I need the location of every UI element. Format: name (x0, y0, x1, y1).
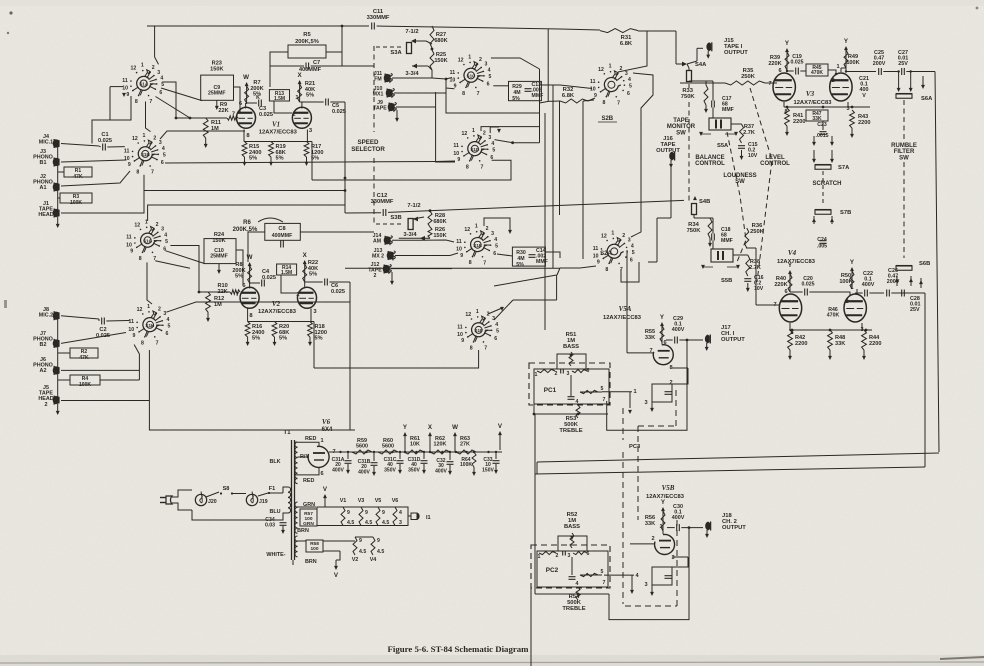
svg-text:OUTPUT: OUTPUT (721, 337, 745, 343)
svg-text:11: 11 (126, 235, 132, 241)
wire S1G contact 4 to V2 grid (170, 246, 199, 293)
svg-text:25MMF: 25MMF (210, 253, 228, 259)
svg-text:0.025: 0.025 (98, 138, 112, 144)
svg-text:7: 7 (156, 340, 159, 346)
svg-text:1.5M: 1.5M (281, 270, 292, 276)
svg-text:12: 12 (462, 131, 468, 137)
svg-text:R5: R5 (303, 32, 311, 38)
svg-text:V4: V4 (788, 249, 797, 257)
svg-text:J19: J19 (259, 499, 268, 505)
svg-text:5: 5 (601, 386, 604, 392)
svg-text:7: 7 (768, 81, 771, 87)
svg-text:9: 9 (359, 538, 362, 544)
plate resistor R39 220K with Y arrow (786, 49, 788, 70)
svg-text:9: 9 (126, 92, 129, 98)
svg-text:3: 3 (568, 553, 571, 559)
svg-text:33K: 33K (645, 521, 655, 527)
wires S1G mesh (148, 205, 345, 221)
svg-text:BRN: BRN (297, 528, 309, 534)
wire pin5 of PC1 (602, 391, 632, 393)
svg-text:5%: 5% (249, 156, 257, 162)
svg-text:11: 11 (593, 246, 599, 252)
svg-text:4.5: 4.5 (347, 520, 354, 526)
svg-text:4: 4 (576, 581, 579, 587)
svg-text:5: 5 (632, 250, 635, 256)
svg-text:B1: B1 (40, 160, 47, 166)
svg-text:FM: FM (374, 76, 382, 82)
jack J4 MIC.1 (53, 139, 60, 147)
capacitor C31C 40 350V (397, 460, 404, 462)
tube V5B (655, 534, 675, 554)
svg-text:11: 11 (453, 143, 459, 149)
V5A grid wire pin7 (627, 352, 654, 354)
wire pin1 to C6 (305, 281, 323, 283)
svg-text:100K: 100K (79, 382, 91, 388)
svg-text:S6B: S6B (919, 261, 930, 267)
arrows below S7B (813, 216, 815, 224)
svg-text:220K: 220K (768, 61, 781, 67)
wires S1A contacts 8 9 10 left (92, 96, 131, 144)
svg-text:10: 10 (593, 253, 599, 259)
PC1 inner parts (570, 375, 572, 396)
svg-text:4.5: 4.5 (377, 549, 384, 555)
svg-text:12AX7/ECC83: 12AX7/ECC83 (603, 315, 642, 321)
V3 pin2 dot (835, 73, 837, 75)
svg-text:2: 2 (651, 536, 654, 542)
svg-text:11: 11 (122, 78, 128, 84)
capacitor C19 0.025 (786, 70, 788, 72)
svg-text:8: 8 (135, 99, 138, 105)
jack J10 MX1 (386, 89, 393, 97)
svg-text:RED: RED (303, 478, 314, 484)
corner specks (9, 11, 12, 14)
svg-text:6: 6 (487, 82, 490, 88)
svg-text:1: 1 (476, 309, 479, 315)
wire S1A contact 5 to C9 box (161, 88, 202, 101)
V4 pin1 wire (856, 289, 858, 293)
svg-text:BASS: BASS (563, 344, 579, 350)
rotary switch S1H (143, 318, 159, 332)
svg-text:2: 2 (669, 380, 672, 386)
svg-text:33K: 33K (835, 341, 845, 347)
svg-text:S4B: S4B (699, 199, 710, 205)
wires around S1C (432, 78, 452, 80)
wire R24 box (236, 250, 243, 286)
tube V5A (653, 345, 673, 365)
svg-text:8: 8 (462, 91, 465, 97)
wire R4/J6 to S1H contact 8 (100, 379, 139, 381)
svg-text:6: 6 (166, 331, 169, 337)
svg-text:12: 12 (598, 67, 604, 73)
ground arrow below J1 (57, 217, 59, 227)
page-edge wire below PC2 (530, 588, 532, 666)
capacitor C34 0.03 (280, 522, 287, 524)
svg-text:400V: 400V (332, 467, 344, 473)
scratch filter arrows (813, 136, 815, 145)
svg-text:9: 9 (133, 333, 136, 339)
svg-text:12AX7/ECC83: 12AX7/ECC83 (646, 494, 685, 500)
capacitor C31B 20 400V (371, 462, 378, 464)
svg-text:2.7K: 2.7K (749, 265, 761, 271)
V5A cathode loop (672, 367, 688, 369)
grid wire V2 with R10 22K (199, 291, 230, 293)
svg-text:10: 10 (453, 151, 459, 157)
svg-text:1: 1 (320, 438, 323, 444)
svg-text:400V: 400V (672, 515, 685, 521)
PC3 dashed channel right (637, 426, 639, 520)
svg-text:C8: C8 (278, 226, 285, 232)
svg-text:4.5: 4.5 (359, 549, 366, 555)
svg-text:7: 7 (483, 260, 486, 266)
svg-text:7: 7 (617, 100, 620, 106)
svg-text:750K: 750K (687, 228, 702, 234)
svg-text:3-3/4: 3-3/4 (403, 232, 417, 238)
svg-text:S1G: S1G (143, 239, 153, 244)
wire J1 to S1B contact 7 (61, 191, 144, 214)
wire 3-3/4 contact S3A (412, 65, 428, 67)
tube V4 left triode (779, 294, 801, 322)
svg-text:2: 2 (555, 371, 558, 377)
heater bus 2 (298, 540, 307, 542)
svg-text:2: 2 (622, 233, 625, 239)
svg-text:2: 2 (158, 306, 161, 312)
svg-text:WHITE-: WHITE- (266, 552, 285, 558)
svg-text:CONTROL: CONTROL (760, 161, 790, 167)
rotary switch S2A (607, 244, 623, 258)
svg-text:220K: 220K (774, 282, 787, 288)
loudness dashed link (727, 132, 746, 262)
svg-text:7: 7 (151, 170, 154, 176)
svg-text:.005: .005 (817, 244, 827, 250)
svg-text:3: 3 (399, 520, 402, 526)
svg-text:9: 9 (457, 157, 460, 163)
box R29 4M 5% / C13 (509, 81, 542, 100)
svg-text:350V: 350V (384, 467, 396, 473)
svg-text:AM: AM (373, 238, 381, 244)
svg-text:6: 6 (630, 258, 633, 264)
svg-text:150K: 150K (212, 238, 225, 244)
svg-text:10: 10 (122, 85, 128, 91)
svg-text:MIC.1: MIC.1 (39, 140, 53, 146)
svg-text:3-3/4: 3-3/4 (405, 71, 419, 77)
svg-text:7: 7 (603, 397, 606, 403)
svg-text:10: 10 (126, 242, 132, 248)
resistor R60 5600 (378, 450, 398, 454)
svg-text:5: 5 (629, 83, 632, 89)
svg-text:C24: C24 (817, 237, 827, 243)
NFB wire from J17 to PC1 pin7 (607, 340, 687, 430)
jack J2 PHONO A1 (53, 183, 60, 191)
R51 ring wires (557, 354, 586, 369)
capacitor C21 0.1 400V (845, 68, 847, 72)
svg-text:4: 4 (494, 237, 497, 243)
svg-text:5%: 5% (315, 336, 323, 342)
svg-text:6: 6 (159, 90, 162, 96)
tube V3 right triode (830, 73, 852, 101)
svg-text:680K: 680K (433, 219, 446, 225)
svg-text:150K: 150K (434, 58, 447, 64)
svg-text:5%: 5% (306, 93, 314, 99)
svg-text:S3A: S3A (390, 50, 402, 56)
jack J3 PHONO B1 (53, 158, 60, 166)
svg-text:12: 12 (458, 57, 464, 63)
svg-text:SW: SW (899, 155, 909, 161)
white lead wire (292, 555, 298, 557)
plate resistor R22 40K with X arrow (304, 261, 306, 282)
module PC2 inner box (537, 551, 608, 587)
wire J2 to S1B contact 8 (61, 171, 130, 186)
svg-text:S1H: S1H (145, 323, 155, 328)
capacitor C12 330MMF (382, 209, 384, 216)
cathode resistor R19 68K 5% (269, 142, 274, 158)
V5B cathode loop (672, 556, 688, 558)
svg-text:2: 2 (292, 112, 295, 118)
wire S1C c5 to R29 (493, 85, 508, 87)
svg-text:8: 8 (141, 340, 144, 346)
wire S1B contact 5 long run (165, 161, 455, 163)
svg-text:3: 3 (644, 582, 647, 588)
tube V1 left triode (236, 107, 255, 128)
rotary switch S1C (464, 68, 480, 82)
svg-text:12: 12 (465, 312, 471, 318)
PC1 bottom wire (534, 413, 608, 415)
svg-text:0.025: 0.025 (262, 275, 276, 281)
resistor R64 100K (472, 452, 476, 467)
svg-text:V2: V2 (272, 300, 281, 308)
svg-text:OUTPUT: OUTPUT (722, 525, 746, 531)
svg-text:2.7K: 2.7K (743, 130, 755, 136)
left trunk down from PC1 (534, 414, 536, 594)
capacitor C25 0.47 200V (845, 70, 847, 72)
V3 pin1 wire (840, 68, 842, 72)
svg-text:V4: V4 (370, 557, 377, 563)
svg-text:4: 4 (399, 510, 402, 516)
wire S1A contact9 arrow (122, 93, 126, 97)
module PC1 dashed box (529, 363, 610, 405)
jack J17 CH 1 OUTPUT (705, 335, 710, 344)
capacitor C33 10 150V (493, 460, 500, 462)
capacitor C31D 40 350V (421, 460, 428, 462)
svg-text:0.025: 0.025 (332, 109, 346, 115)
capacitor C15 0.2 10V (738, 145, 745, 147)
svg-text:0.025: 0.025 (331, 289, 345, 295)
svg-text:6: 6 (493, 251, 496, 257)
svg-text:T1: T1 (283, 429, 291, 436)
svg-text:22K: 22K (218, 108, 228, 114)
B+ arrows W X Y V (404, 433, 406, 452)
tube V1 right triode (292, 107, 311, 128)
svg-text:BALANCE: BALANCE (695, 155, 724, 161)
svg-text:RED: RED (305, 436, 316, 442)
svg-text:1: 1 (141, 63, 144, 69)
svg-text:12: 12 (130, 66, 136, 72)
wire R26 to J13 junction (450, 253, 458, 256)
trunk wires middle (557, 268, 560, 275)
svg-text:HEAD: HEAD (38, 212, 53, 218)
top rail wire with C11 (147, 25, 369, 27)
cathode resistor R17 1200 5% (304, 142, 309, 158)
capacitor C26 0.47 200V (886, 290, 888, 297)
capacitor C6 0.025 (324, 279, 326, 286)
wire 7-1/2 contact S3A (412, 40, 426, 42)
plate resistor R50 100K with Y arrow (851, 268, 853, 289)
resistor R44 2200 (862, 330, 867, 350)
svg-text:S1C: S1C (467, 74, 477, 79)
svg-text:3: 3 (567, 371, 570, 377)
svg-text:V2: V2 (352, 557, 359, 563)
svg-text:4: 4 (495, 322, 498, 328)
svg-text:SPEED: SPEED (358, 139, 380, 146)
svg-text:10: 10 (457, 332, 463, 338)
svg-text:350V: 350V (408, 467, 420, 473)
svg-text:2: 2 (156, 222, 159, 228)
svg-text:9: 9 (377, 538, 380, 544)
svg-text:11: 11 (124, 148, 130, 154)
rotary switch S2B (604, 78, 620, 92)
svg-text:BASS: BASS (564, 524, 580, 530)
resistor R3 100K (60, 193, 92, 203)
svg-text:LOUDNESS: LOUDNESS (723, 173, 756, 179)
svg-text:4: 4 (491, 141, 494, 147)
trunk x345 ch1 output (344, 102, 346, 213)
svg-text:7: 7 (149, 99, 152, 105)
svg-text:11: 11 (456, 239, 462, 245)
V2 cathode bus (248, 321, 314, 323)
svg-text:250K: 250K (741, 74, 756, 80)
svg-text:4: 4 (160, 76, 163, 82)
svg-text:S1F: S1F (474, 328, 483, 333)
svg-text:S1B: S1B (141, 152, 151, 157)
switch S7A (815, 165, 831, 170)
svg-text:4: 4 (631, 244, 634, 250)
plate resistor R21 40K with X arrow (299, 81, 301, 102)
svg-text:8: 8 (603, 100, 606, 106)
wire 7-1/2 contact S3B (413, 217, 424, 219)
resistor R25 150K (430, 50, 434, 70)
svg-text:2: 2 (845, 299, 848, 305)
svg-text:150K: 150K (210, 66, 223, 72)
svg-text:Figure 5-6. ST-84 Schematic D: Figure 5-6. ST-84 Schematic Diagram (388, 644, 530, 654)
svg-text:12: 12 (601, 233, 607, 239)
resistor R61 10K (404, 450, 424, 454)
wire J7 to S1H contact 9 (61, 333, 126, 344)
plug wires (172, 490, 192, 497)
cathode resistor R16 2400 5% (245, 322, 250, 338)
svg-text:0.03: 0.03 (265, 522, 275, 528)
svg-text:8: 8 (139, 256, 142, 262)
svg-text:6X4: 6X4 (322, 427, 333, 433)
svg-text:10: 10 (456, 247, 462, 253)
svg-text:5%: 5% (516, 262, 524, 268)
svg-text:7-1/2: 7-1/2 (407, 203, 420, 209)
svg-text:12AX7/ECC83: 12AX7/ECC83 (258, 309, 297, 315)
svg-text:200K,5%: 200K,5% (295, 39, 319, 45)
svg-text:1: 1 (535, 372, 538, 378)
wire S1G contact 6 to y268 run (155, 261, 190, 269)
V arrow heater 2 (335, 560, 337, 566)
grid wire with R9 22K (176, 117, 227, 119)
svg-text:100K: 100K (460, 462, 472, 468)
feedback resistor R5 200K,5% box (288, 45, 326, 58)
jack J18 CH 2 OUTPUT (705, 522, 710, 531)
svg-text:RUMBLE: RUMBLE (891, 143, 917, 149)
wire S1A contact 4 to grid (162, 82, 176, 118)
PC1 top resistors (537, 369, 555, 372)
module PC2 dashed box (531, 545, 610, 588)
right second trunk (924, 293, 926, 467)
svg-text:S8: S8 (223, 486, 230, 492)
capacitor C24 .005 (820, 240, 827, 242)
svg-text:S6A: S6A (921, 96, 933, 102)
svg-text:K: K (256, 95, 260, 101)
svg-text:4: 4 (628, 77, 631, 83)
svg-text:2: 2 (556, 553, 559, 559)
resistor R41 2200 (785, 108, 790, 126)
svg-text:400V: 400V (358, 469, 370, 475)
jack J8 MIC.2 (53, 312, 60, 320)
resistor R48 33K (828, 330, 833, 350)
svg-text:F1: F1 (269, 486, 276, 492)
AC plug (166, 496, 172, 504)
wires S2B contacts (583, 100, 594, 101)
svg-text:9: 9 (130, 249, 133, 255)
capacitor C16 0.2 10V (744, 278, 751, 280)
svg-text:V3: V3 (806, 90, 815, 98)
svg-text:1M: 1M (211, 126, 219, 132)
scratch dashed link (822, 171, 824, 206)
svg-text:5%: 5% (252, 336, 260, 342)
rotary switch S1A (137, 76, 153, 90)
svg-text:8: 8 (605, 267, 608, 273)
resistor R59 5600 (352, 450, 372, 454)
wire J4 to C1 (61, 144, 99, 147)
svg-text:7: 7 (603, 580, 606, 586)
rumble filter dashed (903, 100, 905, 140)
svg-text:25MMF: 25MMF (208, 90, 226, 96)
svg-text:9: 9 (365, 510, 368, 516)
svg-text:LEVEL: LEVEL (765, 155, 785, 161)
svg-text:10V: 10V (754, 286, 764, 292)
svg-text:11: 11 (129, 319, 135, 325)
svg-text:10V: 10V (748, 153, 758, 159)
wire to V2 pin2 (281, 275, 297, 293)
svg-text:BLU: BLU (269, 509, 280, 515)
input bus wires ch1 (57, 144, 59, 214)
svg-text:MIC.2: MIC.2 (39, 313, 53, 319)
svg-text:9: 9 (460, 253, 463, 259)
svg-text:BRN: BRN (305, 559, 317, 565)
svg-text:2200: 2200 (869, 341, 881, 347)
svg-text:5%: 5% (309, 272, 317, 278)
R52 ring wires (558, 536, 587, 551)
resistor R4 100K (70, 375, 100, 385)
svg-text:MMF: MMF (721, 238, 733, 244)
resistor R54 500K TREBLE (576, 587, 580, 600)
plate resistor R55 33K with Y arrow (661, 323, 663, 344)
feedback capacitor C8 400MMF box (265, 223, 301, 240)
capacitor C18 68MMF (712, 218, 714, 234)
resistor R11 1M (203, 118, 208, 138)
grid stopper wire to pin2 (274, 101, 292, 113)
switch S7B (815, 210, 831, 215)
svg-text:8: 8 (470, 345, 473, 351)
capacitor C13 .002MMF (525, 88, 532, 90)
svg-text:47K: 47K (79, 355, 89, 361)
wires S1E contacts (420, 240, 454, 242)
module PC1 inner box (534, 369, 609, 404)
svg-text:9: 9 (128, 162, 131, 168)
resistor R58 100 box (306, 540, 323, 552)
